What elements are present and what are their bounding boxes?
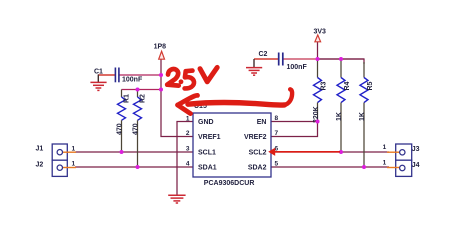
resistor R1: [117, 90, 131, 153]
ground (C1): [90, 75, 106, 91]
svg-text:J4: J4: [412, 162, 420, 169]
junction R5 bottom / SDA2: [362, 165, 366, 169]
svg-text:470: 470: [133, 123, 140, 135]
junction R-top/rail: [159, 88, 163, 92]
svg-text:3: 3: [186, 145, 190, 152]
connector J4: [383, 159, 420, 176]
svg-text:R3: R3: [321, 81, 328, 90]
wire C2 to 3V3 rail: [284, 58, 318, 60]
svg-text:2: 2: [186, 130, 190, 137]
svg-text:C2: C2: [259, 51, 268, 58]
junction R4 top: [339, 57, 343, 61]
resistor R2: [133, 90, 147, 168]
svg-text:EN: EN: [257, 119, 267, 126]
wire SDA2 row (pin 5 to J4): [271, 166, 389, 168]
connector J2: [36, 160, 77, 176]
wire SCL2 row (pin 6 to J3): [271, 151, 389, 153]
wire C1 to ground (red net): [98, 74, 116, 76]
junction EN/VREF2/R3: [316, 120, 320, 124]
svg-text:1P8: 1P8: [154, 44, 167, 51]
junction R2 bottom / SDA1: [136, 165, 140, 169]
wire GND pin 1 to ground: [177, 122, 193, 195]
annotation arrow to 1P8 rail: [178, 89, 293, 113]
svg-text:1: 1: [186, 115, 190, 122]
svg-text:SDA1: SDA1: [198, 164, 217, 171]
capacitor C1: [94, 68, 143, 84]
wire 3V3 rail to R4 R5 tops: [318, 42, 365, 64]
svg-text:J1: J1: [36, 146, 44, 153]
ground (C2): [246, 59, 262, 75]
resistor R4: [336, 59, 351, 152]
svg-text:1K: 1K: [336, 112, 343, 121]
op-amp/IC U15 PCA9306DCUR: [193, 103, 271, 187]
power symbol 3V3: [314, 29, 327, 42]
svg-text:3V3: 3V3: [314, 29, 327, 36]
wire EN (pin 8 to R3): [271, 121, 318, 123]
junction R4 bottom / SCL2: [339, 150, 343, 154]
svg-text:470: 470: [117, 123, 124, 135]
svg-text:5: 5: [275, 160, 279, 167]
wire VREF2 (pin 7 up to EN node): [271, 122, 318, 137]
wire C1 to 1P8 rail: [119, 74, 161, 76]
wire 1P8 rail down to VREF1 pin 2: [161, 59, 193, 137]
connector J1: [36, 144, 77, 160]
svg-text:100nF: 100nF: [287, 64, 308, 71]
annotation handwritten 2.5V: [167, 67, 217, 88]
wire SCL1 row (J1 to pin 3): [75, 151, 193, 153]
capacitor C2: [259, 51, 308, 71]
junction C2 / 3V3 rail: [316, 57, 320, 61]
svg-text:R2: R2: [140, 94, 147, 103]
annotation red overlay line on SCL2: [268, 148, 340, 156]
wire R1/R2 tops to 1P8 rail: [122, 89, 162, 91]
junction R2 top: [136, 88, 140, 92]
svg-text:R1: R1: [124, 94, 131, 103]
svg-text:100nF: 100nF: [122, 77, 143, 84]
ground (U15 GND pin): [168, 195, 185, 203]
svg-text:SCL1: SCL1: [198, 149, 216, 156]
svg-text:7: 7: [275, 130, 279, 137]
svg-text:J3: J3: [412, 146, 420, 153]
svg-text:R5: R5: [367, 81, 374, 90]
svg-text:GND: GND: [198, 119, 214, 126]
svg-text:1: 1: [72, 145, 76, 152]
svg-text:C1: C1: [94, 69, 103, 76]
resistor R3: [313, 59, 328, 123]
wire C2 to ground (red net): [254, 58, 278, 60]
resistor R5: [359, 62, 374, 167]
svg-text:SDA2: SDA2: [248, 164, 267, 171]
svg-text:4: 4: [186, 160, 190, 167]
svg-text:1K: 1K: [359, 112, 366, 121]
svg-text:VREF2: VREF2: [244, 134, 267, 141]
svg-text:SCL2: SCL2: [249, 149, 267, 156]
power symbol 1P8: [154, 44, 167, 60]
svg-text:R4: R4: [344, 81, 351, 90]
svg-text:PCA9306DCUR: PCA9306DCUR: [204, 180, 255, 187]
svg-text:VREF1: VREF1: [198, 134, 221, 141]
svg-text:1: 1: [383, 159, 387, 166]
svg-text:8: 8: [275, 115, 279, 122]
junction R1 bottom / SCL1: [120, 150, 124, 154]
junction C1/rail: [159, 73, 163, 77]
svg-text:1: 1: [72, 161, 76, 168]
connector J3: [383, 144, 420, 160]
svg-text:1: 1: [383, 144, 387, 151]
wire SDA1 row (J2 to pin 4): [75, 166, 193, 168]
svg-text:J2: J2: [36, 161, 44, 168]
